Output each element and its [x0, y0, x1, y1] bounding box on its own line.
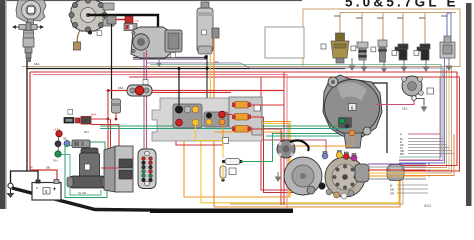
svg-text:7A: 7A: [135, 19, 139, 23]
svg-text:16S: 16S: [402, 107, 407, 111]
svg-text:P: P: [428, 163, 430, 167]
svg-text:R: R: [428, 169, 430, 173]
svg-text:P: P: [400, 133, 402, 137]
svg-text:GR: GR: [390, 192, 394, 196]
svg-text:15A: 15A: [118, 86, 123, 90]
svg-text:16: 16: [215, 60, 219, 64]
svg-text:Y: Y: [428, 175, 430, 179]
svg-text:GN: GN: [53, 159, 58, 163]
svg-text:5.0&5.7GL E: 5.0&5.7GL E: [345, 0, 459, 10]
svg-text:-: -: [36, 186, 38, 192]
svg-text:5013: 5013: [424, 204, 431, 208]
svg-text:SB: SB: [46, 166, 50, 170]
svg-text:16A: 16A: [34, 62, 39, 66]
svg-text:BL: BL: [64, 137, 68, 141]
svg-text:+12V: +12V: [53, 128, 60, 132]
svg-text:SL GN: SL GN: [78, 191, 86, 195]
svg-text:50A: 50A: [91, 113, 96, 117]
svg-text:BN: BN: [400, 152, 404, 156]
svg-text:GN: GN: [84, 130, 89, 134]
svg-text:+: +: [53, 186, 57, 193]
